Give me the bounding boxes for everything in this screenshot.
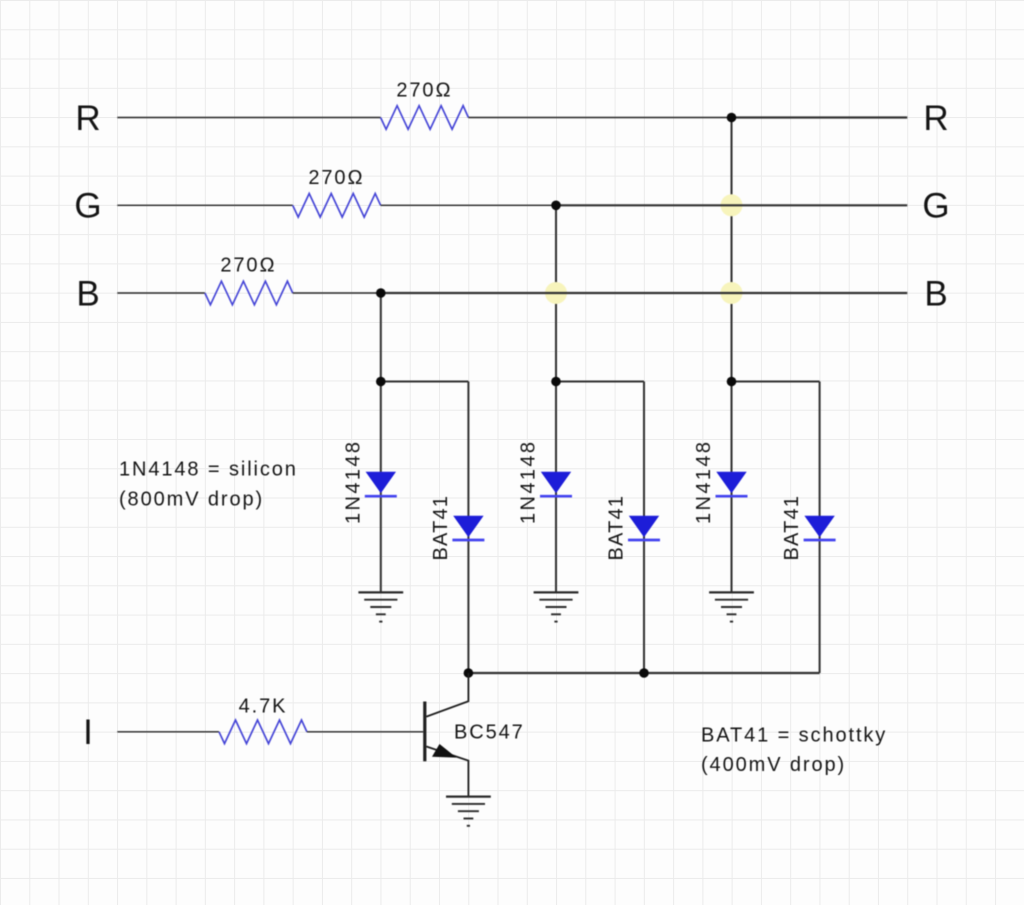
diode D3 cathode bar xyxy=(716,495,748,498)
ground symbol 2 (under D2) xyxy=(534,592,579,621)
diode D6 BAT41 triangle xyxy=(804,516,834,537)
wire I input segment xyxy=(117,731,219,733)
svg-text:R: R xyxy=(75,99,100,138)
wire B net: left segment xyxy=(117,292,205,294)
svg-text:B: B xyxy=(76,275,99,314)
junction dot rail / BAT41 column 2 xyxy=(639,668,649,678)
resistor R3 270 ohm (B line) xyxy=(205,281,293,305)
diode D5 cathode bar xyxy=(628,539,660,542)
wire R net: middle segment xyxy=(468,117,731,119)
svg-text:G: G xyxy=(922,187,949,226)
junction dot rail / collector xyxy=(464,668,474,678)
crossing hop (G over vertical 3) xyxy=(721,194,743,216)
wire vertical branch 1 (from B junction) xyxy=(380,293,382,592)
crossing hop (B over vertical 3) xyxy=(721,282,743,304)
svg-text:270Ω: 270Ω xyxy=(220,255,276,277)
svg-text:R: R xyxy=(923,99,948,138)
junction dot branch 2 split xyxy=(551,377,561,387)
svg-text:1N4148: 1N4148 xyxy=(518,440,540,524)
transistor Q1 BC547 base bar xyxy=(423,702,426,762)
junction dot on B line xyxy=(376,288,386,298)
svg-text:4.7K: 4.7K xyxy=(239,696,288,718)
diode D4 cathode bar xyxy=(452,539,484,542)
diode D3 1N4148 triangle xyxy=(716,472,746,493)
wire BAT41 column 2 vertical xyxy=(643,382,645,674)
wire R net: right thick segment xyxy=(732,116,908,118)
transistor Q1 emitter lead xyxy=(426,747,468,797)
wire branch 1 horizontal to BAT41 column xyxy=(381,381,469,383)
wire branch 2 horizontal to BAT41 column xyxy=(556,381,644,383)
wire branch 3 horizontal to BAT41 column xyxy=(732,381,820,383)
wire bottom rail (anode bus) xyxy=(468,672,819,674)
wire BAT41 column 1 vertical xyxy=(467,382,469,674)
diode D2 1N4148 triangle xyxy=(541,472,571,493)
junction dot branch 1 split xyxy=(376,377,386,387)
svg-text:I: I xyxy=(83,713,93,752)
svg-text:270Ω: 270Ω xyxy=(308,167,364,189)
diode D4 BAT41 triangle xyxy=(453,516,483,537)
resistor R4 4.7K xyxy=(219,720,307,744)
wire G net: right thick segment xyxy=(556,204,907,206)
ground symbol 1 (under D1) xyxy=(358,592,403,621)
diode D1 cathode bar xyxy=(365,495,397,498)
resistor R2 270 ohm (G line) xyxy=(293,194,381,218)
ground symbol 3 (under D3) xyxy=(709,592,754,621)
transistor Q1 emitter arrow xyxy=(432,744,457,758)
svg-text:BAT41 = schottky: BAT41 = schottky xyxy=(701,725,887,747)
svg-text:(400mV drop): (400mV drop) xyxy=(701,754,846,776)
wire BAT41 column 3 vertical xyxy=(819,382,821,674)
wire G net: middle segment xyxy=(381,204,556,206)
svg-text:BAT41: BAT41 xyxy=(430,495,452,561)
ground symbol 4 (emitter) xyxy=(446,797,491,826)
junction dot on R line xyxy=(727,113,737,123)
wire vertical branch 3 (from R junction) xyxy=(731,118,733,593)
svg-text:BAT41: BAT41 xyxy=(606,495,628,561)
diode D5 BAT41 triangle xyxy=(629,516,659,537)
diode D2 cathode bar xyxy=(540,495,572,498)
wire R net: left segment xyxy=(117,117,380,119)
crossing hop (B over vertical 2) xyxy=(545,282,567,304)
junction dot branch 3 split xyxy=(727,377,737,387)
svg-text:(800mV drop): (800mV drop) xyxy=(119,489,264,511)
svg-text:BC547: BC547 xyxy=(454,722,525,744)
diode D6 cathode bar xyxy=(804,539,836,542)
svg-text:270Ω: 270Ω xyxy=(396,80,452,102)
wire base segment xyxy=(307,731,423,733)
svg-text:G: G xyxy=(74,187,101,226)
transistor Q1 collector lead xyxy=(426,673,468,717)
wire G net: left segment xyxy=(117,204,292,206)
svg-text:B: B xyxy=(924,275,947,314)
svg-text:BAT41: BAT41 xyxy=(781,495,803,561)
svg-text:1N4148: 1N4148 xyxy=(693,440,715,524)
junction dot on G line xyxy=(551,201,561,211)
wire B net: middle segment xyxy=(293,292,381,294)
svg-text:1N4148 = silicon: 1N4148 = silicon xyxy=(119,459,298,481)
diode D1 1N4148 triangle xyxy=(366,472,396,493)
wire B net: right thick segment xyxy=(381,292,908,294)
resistor R1 270 ohm (R line) xyxy=(381,106,469,130)
svg-text:1N4148: 1N4148 xyxy=(342,440,364,524)
wire vertical branch 2 (from G junction) xyxy=(555,205,557,592)
